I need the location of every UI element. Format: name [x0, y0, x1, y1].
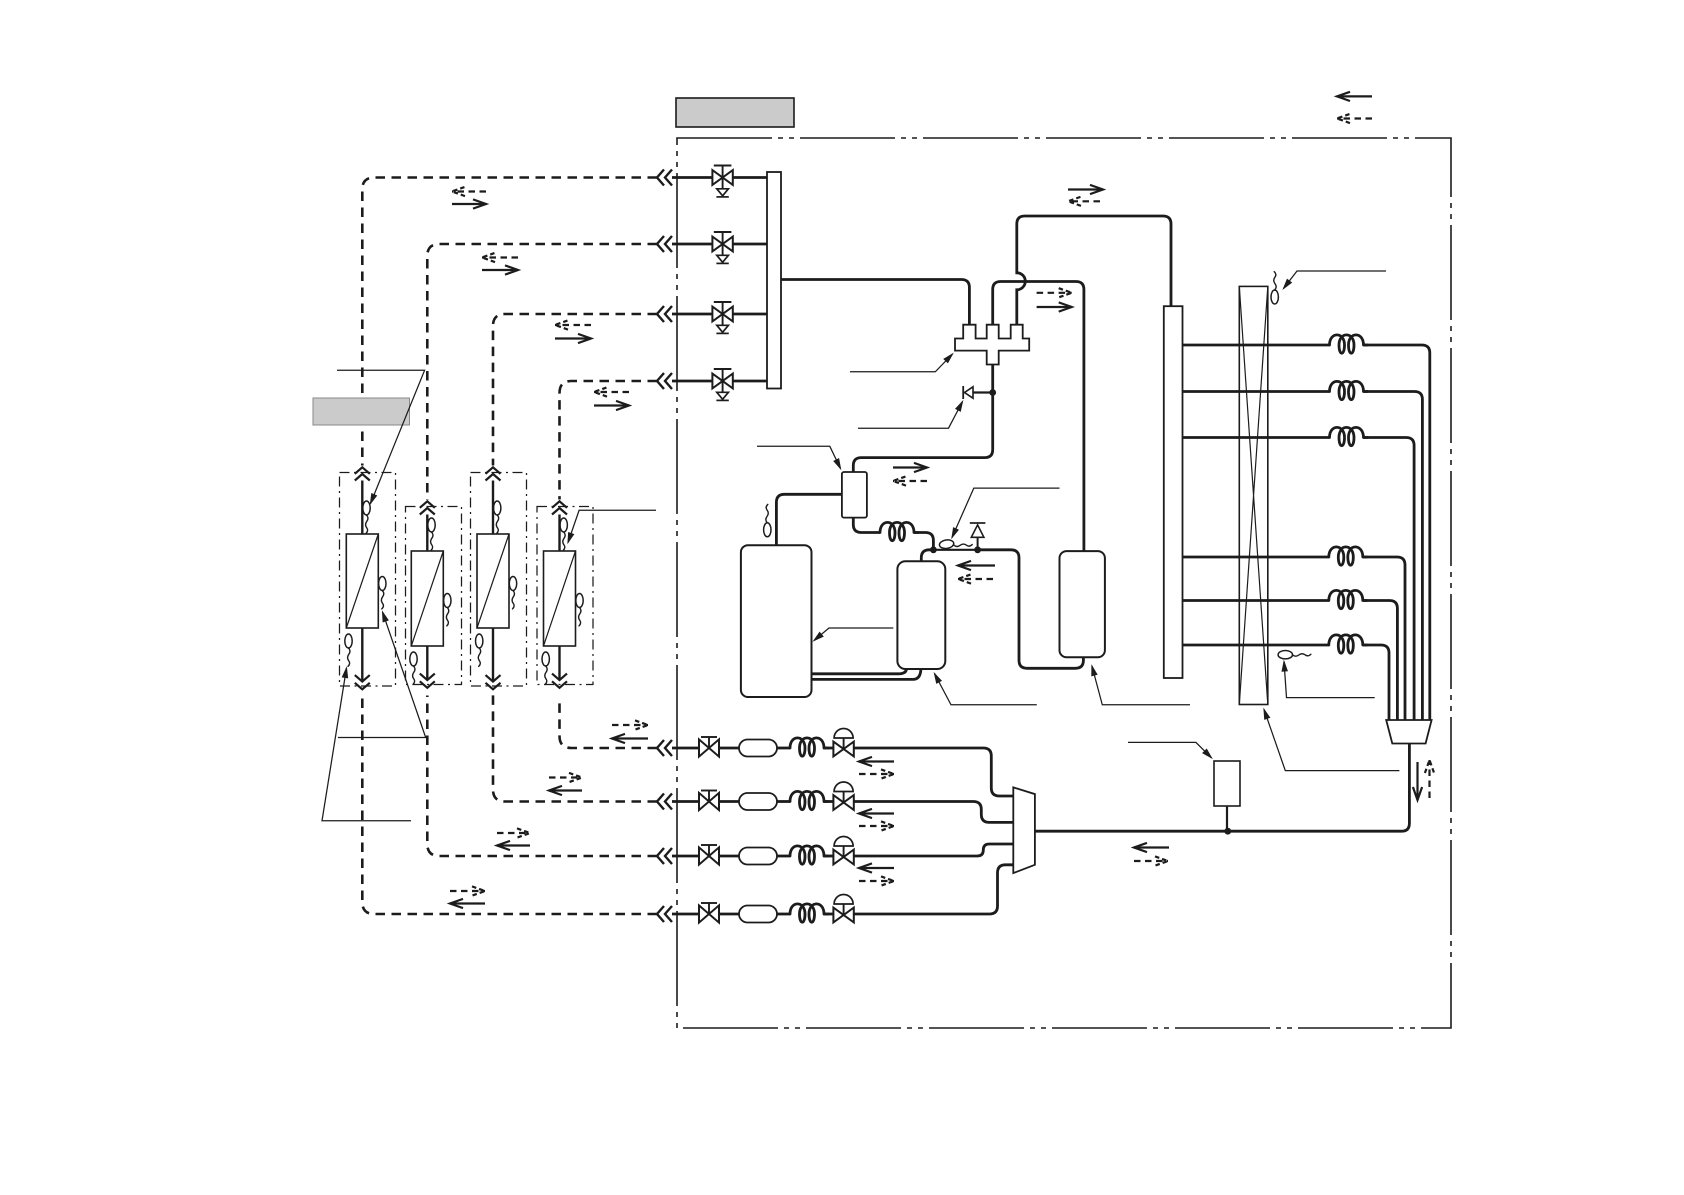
wire liquid field pipe from indoor unit 1 (dashed) — [362, 693, 657, 914]
node relief junction — [974, 546, 981, 553]
flow arrow solid right gas line 2 — [482, 265, 518, 274]
liquid pipe continuation chevrons line 1 — [657, 740, 672, 756]
label callout indoor unit 4 gas thermistor — [568, 510, 656, 542]
flow arrow solid left liquid line 1 — [612, 734, 648, 743]
flow arrow solid left branch 2 — [859, 809, 894, 818]
electronic expansion valve liquid line 4 — [833, 895, 853, 923]
wire compressor discharge — [921, 550, 933, 561]
wire manifold port 3 to liquid header (with pipe hop) — [1017, 216, 1171, 325]
wire gas line A (valve to header) — [672, 176, 767, 179]
indoor unit 1 heat exchanger — [346, 534, 378, 628]
wire indoor unit 1 liquid pipe — [361, 628, 363, 682]
wire solenoid valve to junction — [1226, 806, 1228, 831]
thermistor indoor unit 2 gas pipe — [428, 518, 435, 550]
stop valve liquid line 4 — [699, 903, 719, 923]
wire indoor unit 4 gas pipe — [558, 515, 560, 552]
label callout accumulator — [814, 628, 893, 641]
label callout outdoor air thermistor — [1284, 271, 1387, 289]
wire compressor discharge to sub-cooler — [978, 550, 1084, 669]
thermistor indoor unit 3 gas pipe — [494, 501, 501, 533]
indoor unit 4 outlet chevrons — [552, 674, 567, 688]
gas pipe continuation chevrons line B — [657, 236, 672, 252]
wire manifold port 2 to sub-cooler — [993, 282, 1084, 552]
wire gas field pipe to indoor unit 2 (dashed) — [427, 244, 657, 500]
indoor unit 3 heat exchanger — [477, 534, 509, 628]
wire gas line D (valve to header) — [672, 380, 767, 383]
flow arrow dashed left compressor top — [958, 574, 993, 583]
indoor unit 2 outlet chevrons — [420, 674, 435, 688]
wire liquid line 3 segments — [672, 844, 1013, 856]
indoor unit 4 heat exchanger — [544, 551, 576, 646]
flow arrow dashed up at funnel outlet — [1425, 760, 1434, 798]
wire heat-exchanger pass 2 — [1183, 381, 1423, 720]
capillary tube liquid line 4 — [790, 904, 828, 922]
flow arrow dashed right mid pipe — [1037, 288, 1072, 297]
wire indoor unit 2 liquid pipe — [426, 646, 428, 681]
label callout solenoid valve — [1128, 742, 1212, 757]
thermistor indoor unit 1 liquid pipe — [345, 634, 352, 666]
thermistor outdoor air (top of HX) — [1271, 272, 1278, 304]
strainer liquid line 1 — [739, 740, 777, 757]
wire indoor unit 4 liquid pipe — [558, 646, 560, 681]
electronic expansion valve liquid line 2 — [833, 782, 853, 810]
flow arrow solid left liquid line 2 — [549, 786, 582, 795]
wire gas field pipe to indoor unit 4 (dashed) — [560, 381, 658, 500]
liquid pipe continuation chevrons line 4 — [657, 906, 672, 922]
flow arrow dashed left gas line 1 — [452, 187, 486, 196]
label callout sub-cooler — [1092, 666, 1190, 705]
label callout outdoor heat exchanger — [1264, 709, 1399, 770]
electronic expansion valve liquid line 3 — [833, 837, 853, 865]
service valve gas line B — [712, 232, 732, 263]
flow arrow solid left compressor top — [958, 561, 995, 570]
wire liquid line 2 segments — [672, 802, 1013, 823]
thermistor suction pipe — [764, 504, 771, 536]
thermistor indoor unit 4 liquid pipe — [542, 652, 549, 684]
wire oil separator to discharge junction — [853, 518, 933, 550]
indoor unit 3 boundary (chain-line box) — [471, 473, 527, 687]
liquid header bar (right) — [1164, 306, 1183, 678]
compressor — [897, 561, 945, 669]
wire oil separator to accumulator (oil return) — [776, 494, 842, 545]
indoor unit name label (gray box) — [313, 398, 410, 425]
wire liquid field pipe from indoor unit 2 (dashed) — [427, 696, 657, 857]
gas pipe continuation chevrons line C — [657, 306, 672, 322]
gas pipe continuation chevrons line A — [657, 170, 672, 186]
stop valve liquid line 2 — [699, 791, 719, 811]
thermistor indoor unit 3 liquid pipe — [476, 634, 483, 666]
flow arrow solid right gas line 4 — [594, 401, 629, 410]
capillary tube liquid line 3 — [790, 846, 828, 864]
wire gas line B (valve to header) — [672, 243, 767, 246]
thermistor indoor unit 3 heat exchanger — [509, 577, 516, 609]
wire heat-exchanger pass 6 — [1183, 635, 1390, 720]
liquid pipe continuation chevrons line 3 — [657, 848, 672, 864]
wire indoor unit 1 gas pipe — [361, 481, 363, 535]
flow arrow solid left liquid line 4 — [450, 899, 485, 908]
stop valve liquid line 1 — [699, 737, 719, 757]
indoor unit 3 inlet chevrons — [486, 467, 501, 480]
indoor unit 1 outlet chevrons — [355, 675, 370, 689]
flow arrow dashed right liquid line 4 — [450, 886, 485, 895]
legend arrow solid (cooling flow) — [1337, 92, 1372, 101]
wire accumulator to compressor suction A — [812, 668, 907, 674]
thermistor indoor unit 2 liquid pipe — [410, 652, 417, 684]
wire indoor unit 2 gas pipe — [426, 515, 428, 552]
oil separator — [842, 472, 867, 518]
wire heat-exchanger pass 3 — [1183, 427, 1415, 720]
thermistor indoor unit 4 gas pipe — [560, 518, 567, 550]
flow arrow solid right mid pipe — [1037, 302, 1072, 311]
wire heat-exchanger pass 5 — [1183, 590, 1398, 720]
outdoor unit name label (gray box) — [676, 98, 794, 127]
flow arrow solid right discharge — [893, 463, 927, 472]
label callout heat-exchanger thermistor — [1282, 662, 1375, 698]
label callout compressor — [935, 674, 1037, 705]
service valve gas line D — [712, 369, 732, 400]
solenoid valve body (sub-circuit) — [1214, 761, 1240, 806]
wire discharge junction to relief junction — [933, 549, 977, 551]
label callout indoor unit 1 liquid thermistor — [322, 668, 411, 821]
refrigerant distributor (trapezoid) — [1013, 787, 1035, 873]
liquid pipe continuation chevrons line 2 — [657, 794, 672, 810]
gas header bar — [767, 172, 781, 389]
thermistor heat-exchanger pipe — [1278, 651, 1311, 659]
flow arrow solid left distributor outlet — [1134, 843, 1169, 852]
label callout indoor unit 1 gas thermistor — [337, 370, 425, 503]
wire liquid field pipe from indoor unit 3 (dashed) — [493, 693, 657, 802]
service valve gas line A — [712, 166, 732, 197]
flow arrow dashed right branch 2 — [859, 821, 894, 830]
flow arrow solid left liquid line 3 — [497, 841, 530, 850]
indoor unit 4 inlet chevrons — [552, 501, 567, 514]
thermistor indoor unit 4 heat exchanger — [576, 594, 583, 626]
relief valve (fusible plug) — [970, 523, 986, 550]
capillary tube liquid line 2 — [790, 791, 828, 809]
thermistor indoor unit 1 heat exchanger — [379, 577, 386, 609]
wire gas field pipe to indoor unit 1 (dashed) — [362, 178, 657, 466]
flow arrow solid right top pipe — [1068, 185, 1103, 194]
flow arrow dashed left gas line 2 — [482, 253, 518, 262]
wire header to manifold port 1 — [781, 280, 969, 325]
flow arrow dashed right liquid line 1 — [612, 720, 648, 729]
flow arrow dashed right liquid line 2 — [549, 773, 582, 782]
flow arrow dashed right branch 1 — [859, 769, 894, 778]
sub-cooler vessel — [1060, 551, 1105, 657]
wire distributor outlet to funnel — [1035, 744, 1410, 832]
wire manifold bottom port to oil separator — [853, 365, 992, 473]
label callout pressure sensor — [952, 488, 1060, 537]
indoor unit 4 boundary (chain-line box) — [537, 507, 593, 685]
collector funnel — [1386, 720, 1431, 744]
strainer liquid line 3 — [739, 848, 777, 865]
outdoor heat exchanger (crossed box) — [1239, 286, 1268, 704]
wire gas line C (valve to header) — [672, 313, 767, 316]
label callout four-way manifold — [850, 354, 953, 372]
legend arrow dashed (heating flow) — [1337, 114, 1372, 123]
strainer liquid line 2 — [739, 793, 777, 810]
node discharge junction — [930, 546, 937, 553]
flow arrow dashed right liquid line 3 — [497, 828, 530, 837]
flow arrow dashed right branch 3 — [859, 876, 894, 885]
wire liquid line 1 segments — [672, 748, 1013, 796]
accumulator — [741, 545, 812, 697]
wire heat-exchanger pass 4 — [1183, 547, 1406, 720]
thermistor indoor unit 1 gas pipe — [363, 501, 370, 533]
indoor unit 3 outlet chevrons — [486, 675, 501, 689]
flow arrow dashed left gas line 4 — [594, 387, 629, 396]
gas pipe continuation chevrons line D — [657, 373, 672, 389]
wire indoor unit 3 liquid pipe — [492, 628, 494, 682]
check valve (bleed) — [963, 386, 993, 399]
flow arrow solid down at funnel outlet — [1413, 762, 1422, 800]
wire liquid field pipe from indoor unit 4 (dashed) — [560, 697, 658, 748]
indoor unit 2 boundary (chain-line box) — [406, 507, 462, 685]
wire gas field pipe to indoor unit 3 (dashed) — [493, 314, 657, 466]
outdoor unit boundary (chain-line box) — [677, 138, 1451, 1028]
wire accumulator to compressor suction B — [812, 668, 921, 679]
flow arrow solid left branch 3 — [859, 863, 894, 872]
indoor unit 1 inlet chevrons — [355, 467, 370, 480]
flow arrow solid right gas line 3 — [555, 334, 591, 343]
wire indoor unit 3 gas pipe — [492, 481, 494, 535]
label callout check valve — [858, 402, 963, 429]
flow arrow dashed right distributor outlet — [1134, 856, 1168, 865]
thermistor indoor unit 2 heat exchanger — [444, 594, 451, 626]
stop valve liquid line 3 — [699, 845, 719, 865]
node check valve junction — [989, 389, 996, 396]
capillary tube liquid line 1 — [790, 738, 828, 756]
indoor unit 2 inlet chevrons — [420, 501, 435, 514]
service valve gas line C — [712, 302, 732, 333]
pressure sensor — [939, 539, 972, 549]
indoor unit 2 heat exchanger — [411, 551, 443, 646]
wire heat-exchanger pass 1 — [1183, 335, 1430, 720]
four-way valve manifold body — [955, 325, 1029, 365]
label callout oil separator — [757, 446, 841, 468]
flow arrow dashed left gas line 3 — [555, 320, 591, 329]
indoor unit 1 boundary (chain-line box) — [340, 473, 396, 687]
flow arrow solid left branch 1 — [859, 757, 894, 766]
wire liquid line 4 segments — [672, 865, 1013, 914]
label callout indoor unit 1 hx thermistor — [338, 612, 426, 738]
flow arrow solid right gas line 1 — [452, 199, 486, 208]
strainer liquid line 4 — [739, 906, 777, 923]
electronic expansion valve liquid line 1 — [833, 729, 853, 757]
flow arrow dashed left top pipe — [1068, 197, 1100, 206]
node liquid line junction — [1224, 828, 1231, 835]
flow arrow dashed left discharge — [893, 476, 927, 485]
